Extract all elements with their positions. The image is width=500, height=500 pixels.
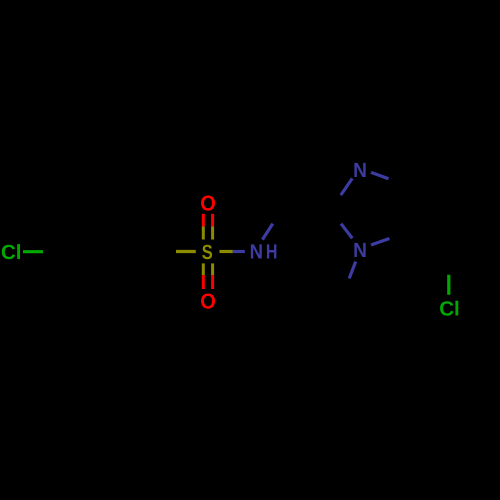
double bond S=O top, line 2: [211, 214, 214, 227]
double bond S=O bottom, line 2: [211, 263, 214, 275]
svg-text:S: S: [202, 241, 213, 264]
bond Cl-C4' (green half): [23, 250, 43, 253]
svg-text:Cl: Cl: [439, 297, 460, 320]
svg-text:N: N: [250, 241, 263, 264]
svg-text:Cl: Cl: [1, 241, 22, 264]
bond N1-CH3 (nitrogen half): [349, 262, 356, 279]
bond C2-N1 (nitrogen half): [341, 224, 352, 239]
bond N-CH2 (nitrogen half): [262, 224, 272, 240]
double bond S=O top, line 1 (red upper / olive lower): [202, 214, 205, 227]
bond N3-C3a (nitrogen half): [371, 172, 389, 178]
svg-text:O: O: [200, 192, 216, 216]
bond S-N (nitrogen half): [233, 250, 245, 253]
svg-text:N: N: [353, 159, 367, 182]
svg-text:O: O: [200, 289, 216, 313]
bond S-N (sulfur half): [220, 250, 233, 253]
bond C1'-S (sulfur half): [176, 250, 196, 253]
svg-text:H: H: [266, 241, 278, 264]
bond C2-N3 (nitrogen half): [341, 178, 353, 195]
bond N1-C7a (nitrogen half): [371, 239, 389, 246]
bond C7-Cl (green half): [447, 275, 450, 295]
svg-text:N: N: [353, 239, 367, 262]
double bond S=O bottom, line 1 (olive upper / red lower): [202, 263, 205, 275]
